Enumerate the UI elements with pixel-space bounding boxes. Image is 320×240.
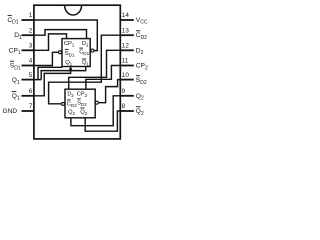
svg-text:D1: D1 — [14, 32, 22, 41]
wire pin2 to D1 top entry — [34, 30, 87, 39]
wire pin4 to SD1 bubble — [34, 52, 59, 65]
label pin1 CD1-bar (outside left) — [7, 15, 18, 25]
U1a label CP1 — [64, 41, 75, 48]
label pin2 D1 (outside left) — [14, 32, 22, 41]
svg-text:7: 7 — [29, 103, 33, 110]
wire pin8 to Q2-bar output — [85, 111, 120, 131]
label pin6 Q1-bar (outside left) — [12, 92, 20, 102]
pin number 3 — [29, 43, 33, 50]
svg-text:Q2: Q2 — [80, 109, 87, 116]
svg-text:D2: D2 — [67, 91, 74, 98]
svg-text:CD2: CD2 — [67, 101, 77, 108]
junction dot Q1 — [69, 68, 72, 71]
label pin8 Q2-bar (outside right) — [136, 107, 144, 117]
label pin12 D2 (outside right) — [136, 47, 144, 56]
flip-flop U1a box — [62, 39, 90, 67]
svg-text:CP1: CP1 — [9, 47, 21, 56]
wire pin3 to CP1 top entry — [34, 34, 67, 50]
svg-text:Q1: Q1 — [12, 93, 20, 102]
svg-text:5: 5 — [29, 72, 33, 79]
svg-text:SD2: SD2 — [77, 100, 87, 107]
svg-text:CD2: CD2 — [136, 32, 147, 41]
wire pin11 to CP2 top entry — [86, 66, 120, 90]
pin number 2 — [29, 27, 33, 34]
IC body U1 (DIP-14 outline) — [34, 5, 120, 139]
svg-text:8: 8 — [122, 103, 126, 110]
pin 9 stub — [120, 95, 134, 97]
wire pin9 to Q2 output — [71, 96, 120, 126]
svg-text:12: 12 — [122, 43, 130, 50]
label pin7 GND (outside left) — [3, 108, 18, 115]
pin 13 stub — [120, 34, 134, 36]
svg-text:Q2: Q2 — [136, 108, 144, 117]
svg-text:VCC: VCC — [136, 17, 148, 26]
U1a label Q1 — [65, 60, 72, 67]
pin 2 stub — [22, 34, 34, 36]
svg-text:GND: GND — [3, 108, 18, 115]
svg-text:CP1: CP1 — [64, 41, 75, 48]
wire pin12 to D2 top entry — [69, 50, 121, 89]
svg-text:1: 1 — [29, 12, 33, 19]
pin 7 stub — [22, 110, 34, 112]
svg-text:6: 6 — [29, 88, 33, 95]
svg-text:9: 9 — [122, 88, 126, 95]
U1b label Q2 — [68, 109, 75, 116]
pin number 4 — [29, 58, 33, 65]
wire pin13 to CD2 bubble — [49, 35, 121, 104]
pin 3 stub — [22, 49, 34, 51]
svg-text:11: 11 — [122, 58, 129, 65]
pin number 9 — [122, 88, 126, 95]
pin number 12 — [122, 43, 130, 50]
U1a label Q1-bar — [82, 59, 89, 67]
pin 4 stub — [22, 65, 34, 67]
label pin5 Q1 (outside left) — [12, 77, 20, 86]
notch (pin-1 index semicircle) — [65, 5, 82, 15]
label pin9 Q2 (outside right) — [136, 93, 144, 102]
pin 5 stub — [22, 79, 34, 81]
U1b label D2 — [67, 91, 74, 98]
svg-text:14: 14 — [122, 12, 130, 19]
pin 14 stub — [120, 19, 134, 21]
svg-text:3: 3 — [29, 43, 33, 50]
svg-text:Q2: Q2 — [68, 109, 75, 116]
wire pin10 to SD2 bubble — [98, 80, 120, 103]
U1a input bubble SD1 (left edge) — [58, 51, 61, 54]
pin 6 stub — [22, 95, 34, 97]
pin 10 stub — [120, 79, 134, 81]
U1b label CP2 — [77, 91, 88, 98]
label pin11 CP2 (outside right) — [136, 63, 148, 72]
svg-text:D1: D1 — [82, 41, 89, 48]
wire pin6 to Q1-bar output — [34, 67, 71, 96]
pin number 1 — [29, 12, 33, 19]
U1b input bubble CD2 (left edge) — [61, 102, 64, 105]
flip-flop U1b box — [65, 89, 95, 118]
svg-text:CP2: CP2 — [136, 63, 148, 72]
pin number 8 — [122, 103, 126, 110]
pin number 6 — [29, 88, 33, 95]
U1b input bubble SD2 (right edge) — [95, 101, 98, 104]
pin 8 stub — [120, 110, 134, 112]
svg-text:CP2: CP2 — [77, 91, 88, 98]
pin 1 stub — [22, 19, 34, 21]
svg-text:Q1: Q1 — [12, 77, 20, 86]
wire pin5 to Q1 output — [34, 67, 86, 80]
svg-text:D2: D2 — [136, 47, 144, 56]
pin number 13 — [122, 27, 130, 34]
pin number 10 — [122, 72, 130, 79]
svg-text:CD1: CD1 — [79, 50, 89, 57]
svg-text:SD1: SD1 — [10, 63, 21, 72]
U1a label CD1-bar — [79, 48, 89, 56]
label pin4 SD1-bar (outside left) — [10, 61, 21, 71]
svg-text:Q1: Q1 — [82, 60, 89, 67]
svg-text:2: 2 — [29, 27, 33, 34]
svg-text:4: 4 — [29, 58, 33, 65]
svg-text:Q1: Q1 — [65, 60, 72, 67]
pin number 11 — [122, 58, 129, 65]
pin number 7 — [29, 103, 33, 110]
U1b label CD2-bar — [67, 100, 77, 108]
U1b label SD2-bar — [77, 99, 87, 107]
svg-text:Q2: Q2 — [136, 93, 144, 102]
label pin14 VCC (outside right) — [136, 17, 148, 26]
wire pin1 to CD1 bubble — [34, 20, 97, 51]
pin 11 stub — [120, 65, 134, 67]
pin 12 stub — [120, 49, 134, 51]
U1b label Q2-bar — [80, 108, 87, 116]
label pin13 CD2-bar (outside right) — [136, 31, 147, 41]
svg-text:SD1: SD1 — [65, 51, 75, 58]
svg-text:CD1: CD1 — [7, 17, 18, 26]
svg-text:10: 10 — [122, 72, 130, 79]
pin number 14 — [122, 12, 130, 19]
pin number 5 — [29, 72, 33, 79]
U1a input bubble CD1 (right edge) — [91, 49, 94, 52]
svg-text:13: 13 — [122, 27, 130, 34]
svg-text:SD2: SD2 — [136, 77, 147, 86]
label pin10 SD2-bar (outside right) — [136, 76, 147, 86]
U1a label SD1-bar — [65, 49, 75, 57]
label pin3 CP1 (outside left) — [9, 47, 21, 56]
U1a label D1 — [82, 41, 89, 48]
